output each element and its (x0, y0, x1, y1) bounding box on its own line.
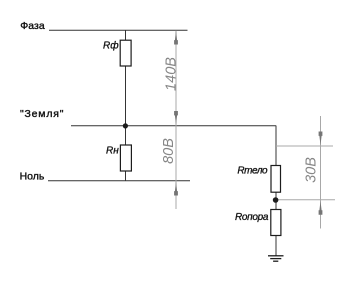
resistor Rн (120, 145, 131, 171)
svg-text:Rф: Rф (103, 39, 119, 51)
dimension arrow: down at top extension line (319, 132, 323, 146)
junction dot on Земля line (123, 123, 128, 128)
extension line: top of Rтело node (276, 145, 333, 147)
wire: Фаза horizontal line (49, 29, 188, 31)
extension line: junction node Rтело/Rопора (276, 199, 335, 201)
dimension line: right (30В) (320, 116, 322, 229)
svg-text:Ноль: Ноль (20, 171, 45, 183)
svg-text:Rопора: Rопора (235, 212, 269, 223)
resistor Rф (120, 40, 131, 66)
svg-text:Rтело: Rтело (237, 165, 268, 176)
dimension line: left (140В / 80В) (175, 31, 177, 210)
svg-text:Фаза: Фаза (20, 20, 45, 32)
wire: Ноль horizontal line (48, 180, 190, 182)
svg-text:Rн: Rн (106, 145, 119, 156)
svg-text:"Земля": "Земля" (20, 108, 64, 120)
dimension arrow: up below Ноль line (174, 182, 178, 196)
junction dot between Rтело and Rопора (273, 197, 279, 203)
ground symbol (268, 256, 284, 261)
resistor Rопора (271, 210, 281, 236)
svg-text:80В: 80В (161, 138, 177, 164)
wire: Земля horizontal line (71, 125, 276, 127)
dimension arrow: up at Фаза line (174, 31, 178, 45)
wire: left vertical branch through Rф and Rн (125, 30, 127, 181)
svg-text:140В: 140В (164, 57, 180, 91)
svg-text:30В: 30В (304, 157, 320, 183)
dimension arrow: up at junction extension line (319, 201, 323, 215)
resistor Rтело (271, 166, 281, 193)
wire: right vertical branch from Земля down to ground (275, 126, 277, 256)
dimension arrow: down at Земля line (174, 111, 178, 125)
